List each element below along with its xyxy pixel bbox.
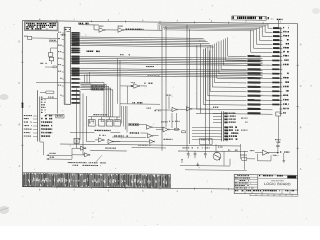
- wire drops G3: [117, 58, 119, 104]
- decorative: parts legend band: [23, 172, 298, 196]
- gate U2A: [99, 28, 104, 33]
- analog rail top: [178, 150, 248, 153]
- pull-up resistor pack: [276, 112, 281, 116]
- address bus A1-A5: [81, 56, 263, 58]
- wire rail y82.5: [36, 81, 91, 84]
- net label mid: [132, 102, 135, 103]
- gate U7B: [108, 139, 113, 143]
- gate U13A: [147, 125, 152, 129]
- wire stubs G4 down: [84, 75, 86, 82]
- wire rail y144: [60, 144, 241, 146]
- resistor R32: [242, 157, 247, 160]
- decorative: general notes box: [25, 22, 59, 31]
- decorative: sheet border frame: [19, 14, 302, 195]
- svg-text:C: C: [19, 82, 21, 85]
- gate U7A: [99, 138, 104, 142]
- dark stamp in title: [287, 176, 296, 179]
- svg-text:D: D: [19, 40, 21, 43]
- resistor R20 label: [249, 150, 252, 151]
- gate U12B: [187, 107, 192, 111]
- capacitor C35: [201, 147, 204, 148]
- op-amp U10: [163, 127, 168, 132]
- analog rail lower: [180, 165, 230, 168]
- capacitor C25: [275, 139, 276, 140]
- transistor Q1: [218, 146, 219, 147]
- RAM select labels: [91, 85, 105, 87]
- J5 wire: [41, 98, 57, 100]
- net labels above U10: [169, 121, 170, 122]
- latch U5: [106, 120, 112, 126]
- IC U1 68000 CPU: [64, 27, 70, 104]
- gate U2B: [105, 29, 118, 31]
- buffer U8A: [81, 146, 85, 150]
- feedback wire: [258, 160, 272, 162]
- svg-text:D: D: [300, 43, 302, 46]
- net label box: [46, 91, 54, 93]
- decorative: scan artifacts: [0, 94, 9, 100]
- net out wire: [90, 150, 127, 152]
- svg-text:C: C: [300, 85, 302, 88]
- resistor R3: [53, 66, 56, 68]
- connector J4: [280, 27, 282, 115]
- svg-text:LOGIC BOARD: LOGIC BOARD: [264, 182, 291, 186]
- arrow wires from J5: [47, 154, 73, 156]
- latch U6: [114, 120, 120, 126]
- box outline J2: [200, 138, 213, 144]
- decorative: title block: [234, 175, 297, 195]
- net label boxed: [129, 123, 139, 125]
- small cap C26: [272, 155, 275, 156]
- wire joints: [215, 144, 217, 151]
- clock label net: [79, 23, 80, 25]
- extra J4 feed wires: [196, 108, 273, 111]
- decorative: drawing number stamp: [232, 16, 266, 20]
- bus elbow to connector J4 lower: [203, 49, 205, 105]
- caption text: [68, 162, 69, 163]
- connector J5: [37, 90, 39, 141]
- wire stub: [181, 159, 183, 163]
- reset RC box: [24, 36, 25, 37]
- connector J3: [221, 111, 223, 141]
- net label under latches: [95, 130, 97, 131]
- ground G2: [197, 163, 200, 166]
- capacitor C34: [192, 147, 193, 148]
- latch U3: [88, 120, 95, 126]
- gate U12A: [166, 95, 168, 96]
- op-amp U9: [134, 84, 139, 89]
- boxed net label: [56, 114, 64, 118]
- latch U4: [99, 120, 105, 126]
- crystal Y1: [48, 53, 52, 57]
- wire drops from U1: [76, 89, 78, 149]
- net label: [49, 40, 50, 41]
- op-amp U11: [263, 150, 268, 155]
- data bus D0-D7: [81, 37, 204, 38]
- clock bus wires: [158, 24, 268, 25]
- resistor R12: [175, 128, 179, 130]
- test point TP1: [60, 34, 63, 35]
- net wire lower: [132, 147, 167, 149]
- crystal X1: [74, 138, 79, 143]
- U1 right pin labels: [71, 36, 81, 38]
- resistor R13: [182, 131, 186, 133]
- net label: [130, 132, 132, 133]
- address bus A6-A10: [81, 68, 263, 70]
- capacitor C33: [183, 147, 184, 148]
- gate U13B: [148, 134, 153, 138]
- label R30: [228, 150, 230, 151]
- wire drops to decoder: [121, 106, 123, 124]
- bus elbow to connector J4 top: [267, 24, 269, 28]
- label C36 R31: [235, 150, 237, 151]
- buffer U8B: [85, 153, 89, 157]
- wire elbows to latch row: [81, 81, 105, 83]
- net 15 MHZ label: [126, 29, 128, 30]
- gate U13C: [150, 140, 154, 144]
- wire verticals to lower section: [161, 30, 163, 151]
